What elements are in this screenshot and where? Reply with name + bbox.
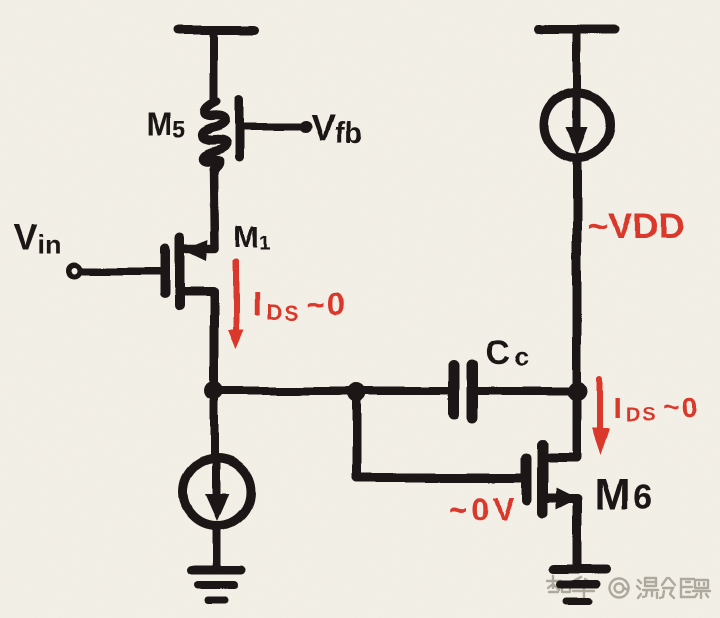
label M6: [594, 470, 656, 519]
watermark: [547, 576, 710, 599]
wire I2 down through node C to M6 drain: [550, 158, 577, 458]
svg-text:M6: M6: [594, 470, 656, 519]
power rail VDD (right): [539, 26, 615, 35]
ground (left): [192, 570, 242, 600]
label Cc: [485, 334, 528, 372]
junction node A: [204, 381, 223, 400]
wire node A to current source I1: [210, 391, 218, 458]
wire Cc right plate to node C: [472, 387, 574, 395]
junction node B: [348, 383, 367, 402]
wire M5 source to M1 drain: [186, 168, 215, 249]
capacitor Cc: [454, 365, 472, 418]
label M1: [234, 219, 271, 254]
label M5: [146, 106, 186, 144]
wire rail to current source I2: [573, 31, 581, 94]
label IDS~0 (red, right): [613, 392, 700, 427]
label Vin: [14, 217, 62, 260]
node Vfb terminal: [300, 121, 312, 133]
current annotation arrow IDS~0 (M1, red): [228, 262, 244, 349]
junction node C: [568, 382, 588, 402]
transistor M5 (squiggle channel + gate bar): [202, 100, 239, 169]
current source I2: [544, 92, 610, 158]
wire rail to M5: [210, 31, 218, 103]
label IDS~0 (red, left): [252, 286, 347, 325]
svg-text:~0V: ~0V: [448, 491, 518, 527]
terminal Vin: [69, 265, 80, 276]
wire I1 to ground: [213, 526, 221, 566]
ground (right): [553, 570, 607, 601]
label Vfb: [311, 107, 362, 149]
wire node A to node B to capacitor: [218, 387, 450, 395]
wire Vin to M1 gate: [82, 268, 160, 275]
wire node B down and right to M6 gate: [357, 396, 523, 478]
label ~VDD (red): [587, 205, 684, 246]
current source I1: [184, 459, 251, 526]
transistor M1: [165, 238, 215, 384]
svg-text:~VDD: ~VDD: [587, 205, 684, 246]
wire M5 gate to Vfb: [242, 124, 301, 131]
label ~0V (red): [448, 491, 518, 527]
current annotation arrow IDS~0 (M6, red): [592, 378, 610, 455]
power rail VDD (left): [178, 26, 254, 35]
transistor M6: [527, 445, 579, 566]
